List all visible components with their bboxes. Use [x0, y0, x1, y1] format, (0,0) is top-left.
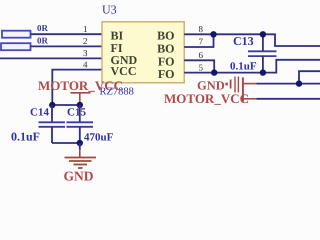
junction C13 top [260, 31, 266, 37]
wire bottom row y143 [52, 142, 80, 144]
wire node row y105 [52, 104, 80, 106]
svg-text:5: 5 [199, 62, 204, 72]
wire pin7 joins net A [184, 34, 213, 47]
wire pin3 [0, 57, 102, 59]
wire pin2 [31, 45, 103, 47]
IC U3 body [102, 22, 184, 83]
svg-text:U3: U3 [102, 3, 117, 17]
svg-text:MOTOR_VCC: MOTOR_VCC [164, 91, 249, 106]
svg-text:8: 8 [199, 24, 204, 34]
svg-text:7: 7 [199, 37, 204, 47]
svg-text:4: 4 [83, 59, 88, 69]
capacitor C13 bottom lead [262, 56, 264, 73]
capacitor C13 plates [248, 50, 277, 52]
junction pin4/C14 [49, 102, 55, 108]
svg-text:470uF: 470uF [84, 132, 114, 144]
svg-text:3: 3 [83, 48, 88, 58]
wire lower motor net [257, 98, 320, 100]
svg-text:C13: C13 [233, 34, 254, 48]
branch to y71 [299, 71, 320, 83]
capacitor C15 bottom lead [79, 127, 81, 143]
resistor R-top 0R [2, 23, 49, 38]
power symbol MOTOR_VCC T-bar [71, 93, 91, 105]
polarized capacitor plus sign [225, 83, 228, 86]
resistor R-bottom 0R [1, 35, 49, 50]
svg-text:GND: GND [64, 169, 94, 184]
red stub upper [243, 83, 257, 85]
red stub lower [243, 98, 257, 100]
svg-text:C14: C14 [30, 107, 49, 119]
capacitor C15 plates [67, 121, 94, 123]
svg-text:0.1uF: 0.1uF [230, 61, 257, 73]
wire pin8 net A [184, 34, 320, 46]
junction branch [296, 80, 302, 86]
junction pins 8-7 [210, 31, 216, 37]
capacitor C13 top lead [262, 34, 264, 51]
capacitor C14 bottom lead [51, 127, 53, 143]
ground symbol [65, 158, 97, 169]
wire pin5 net B [184, 60, 320, 73]
svg-text:C15: C15 [67, 107, 86, 119]
svg-text:1: 1 [83, 24, 88, 34]
polarized capacitor plates [231, 77, 239, 93]
svg-text:6: 6 [199, 50, 204, 60]
svg-text:FO: FO [158, 67, 175, 81]
svg-text:MOTOR_VCC: MOTOR_VCC [38, 78, 123, 93]
junction C13 bottom [260, 69, 266, 75]
capacitor C15 top lead [79, 105, 81, 122]
svg-text:0R: 0R [37, 35, 49, 45]
ground lead [79, 143, 81, 150]
capacitor C14 plates [39, 121, 66, 123]
junction T/C15 [77, 102, 83, 108]
svg-text:0.1uF: 0.1uF [11, 130, 40, 144]
capacitor C14 top lead [51, 105, 53, 122]
svg-text:0R: 0R [37, 23, 49, 33]
svg-text:BO: BO [157, 41, 174, 55]
svg-text:2: 2 [83, 36, 88, 46]
wire pin1 [31, 33, 103, 35]
junction bottom [77, 140, 83, 146]
wire pin4 [52, 70, 102, 105]
wire upper motor net [257, 83, 320, 85]
junction pins 6-5 [211, 69, 217, 75]
wire pin6 joins net B [184, 60, 214, 72]
MOTOR_VCC power rail right [242, 77, 244, 102]
svg-text:VCC: VCC [111, 64, 137, 78]
